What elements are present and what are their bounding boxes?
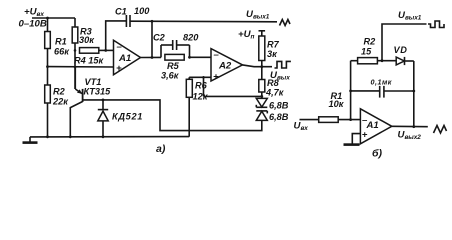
node Uvyh2 label	[398, 129, 422, 141]
wire A2 plus input row	[189, 76, 211, 78]
node R8 bottom junction	[260, 95, 263, 98]
ground right	[344, 143, 360, 146]
diode KD521	[98, 100, 143, 137]
svg-text:3,6к: 3,6к	[161, 70, 180, 80]
node R2 VD junction	[381, 59, 384, 62]
wire ground rail	[30, 136, 189, 138]
svg-text:3к: 3к	[267, 49, 278, 59]
capacitor C1	[115, 6, 150, 27]
svg-text:22к: 22к	[52, 97, 69, 107]
node output junction	[412, 125, 415, 128]
svg-text:+: +	[213, 72, 219, 83]
resistor R6	[188, 77, 190, 79]
zener VD2 6.8V	[256, 111, 288, 122]
wire A1 output	[392, 125, 428, 127]
wire input top	[32, 17, 75, 19]
wire A1 output	[141, 56, 162, 58]
op-amp A1	[114, 40, 141, 75]
resistor R2 right	[358, 37, 378, 64]
op-amp A1 right	[360, 109, 391, 144]
wire left column	[350, 61, 352, 120]
node square glyph right	[428, 21, 444, 28]
svg-text:+: +	[362, 130, 368, 141]
svg-text:R1: R1	[55, 37, 67, 47]
resistor R7	[259, 36, 280, 61]
svg-text:6,8В: 6,8В	[269, 112, 289, 122]
svg-text:R6: R6	[195, 81, 208, 91]
svg-text:10к: 10к	[329, 99, 345, 109]
node R1 output junction	[349, 118, 352, 121]
svg-text:A2: A2	[218, 61, 232, 72]
node divider tap	[74, 66, 77, 69]
node junction R1 top	[46, 17, 49, 20]
svg-text:КД521: КД521	[112, 112, 143, 122]
wire to A2 inverting input	[190, 56, 212, 58]
svg-text:C1: C1	[115, 7, 127, 17]
resistor R1	[45, 32, 71, 57]
node A2 plus input junction	[202, 76, 205, 79]
ground	[23, 137, 38, 143]
resistor R3	[72, 27, 95, 46]
capacitor 0.1mk	[351, 78, 414, 98]
node Uvx input	[294, 121, 309, 133]
svg-text:15: 15	[361, 47, 372, 57]
node C1 column junction	[104, 49, 107, 52]
op-amp A2	[211, 49, 243, 83]
svg-text:б): б)	[372, 148, 383, 160]
svg-text:+: +	[116, 63, 122, 74]
svg-text:A1: A1	[118, 53, 131, 64]
wire parallel block right stub	[189, 45, 191, 57]
svg-text:0–10В: 0–10В	[19, 19, 47, 30]
svg-text:12к: 12к	[193, 92, 209, 102]
node KD521 ground junction	[102, 135, 105, 138]
node capacitor left junction	[349, 90, 352, 93]
wire feedback vertical	[151, 21, 153, 57]
node A2 output junction	[260, 65, 263, 68]
svg-text:30к: 30к	[79, 35, 95, 45]
resistor R5	[161, 54, 184, 80]
svg-text:–: –	[214, 50, 220, 61]
node Uvyh label	[270, 70, 290, 82]
svg-text:R2: R2	[364, 37, 377, 47]
wire zener bottom link	[83, 100, 261, 131]
svg-text:C2: C2	[153, 32, 166, 42]
node R5 right junction	[188, 56, 191, 59]
wire divider row to A1 +	[48, 66, 114, 68]
wire A2 output	[243, 65, 273, 67]
wire hysteresis row	[204, 95, 262, 97]
wire C1 feedback left column	[106, 21, 126, 51]
svg-text:R2: R2	[53, 87, 66, 97]
node VT1 emitter ground junction	[69, 135, 72, 138]
wire R3 column	[74, 18, 76, 27]
svg-text:R4 15к: R4 15к	[74, 56, 105, 66]
node divider junction	[46, 65, 49, 68]
node triangle glyph right	[434, 126, 447, 134]
svg-text:66к: 66к	[54, 47, 70, 57]
wire R4 to A1 inverting input	[99, 49, 114, 51]
svg-text:VD: VD	[394, 45, 408, 55]
svg-text:КТ315: КТ315	[84, 86, 112, 96]
node Uvyh1 label	[246, 9, 270, 21]
wire top output row	[130, 20, 277, 23]
node capacitor right junction	[412, 90, 415, 93]
svg-text:100: 100	[134, 6, 150, 16]
svg-text:0,1мк: 0,1мк	[371, 78, 392, 87]
svg-text:820: 820	[183, 32, 199, 42]
node triangle wave glyph	[280, 20, 291, 26]
node +Uvx input label	[19, 7, 47, 30]
resistor R8	[261, 67, 263, 80]
svg-text:а): а)	[156, 143, 166, 155]
wire R1 stubs	[47, 18, 49, 32]
node diode junction	[102, 99, 105, 102]
wire to Uvyh1 terminal	[382, 24, 427, 61]
wire R2 stubs	[47, 67, 49, 85]
capacitor C2	[153, 32, 199, 50]
node R4 tap	[74, 49, 77, 52]
resistor R2	[45, 85, 70, 107]
svg-text:A1: A1	[366, 120, 379, 131]
zener VD1 6.8V	[256, 98, 288, 110]
node +Up supply label	[238, 29, 255, 41]
svg-text:6,8В: 6,8В	[269, 101, 289, 111]
resistor R4	[74, 48, 105, 66]
diode VD	[394, 45, 408, 65]
transistor VT1 KT315	[70, 67, 111, 137]
wire plus input to ground	[352, 134, 360, 144]
wire right column	[413, 61, 415, 127]
svg-text:4,7к: 4,7к	[265, 87, 285, 97]
node A1 output / feedback junction	[151, 56, 154, 59]
wire R7 supply stub	[261, 31, 263, 36]
node R2 ground junction	[46, 135, 49, 138]
node feedback junction	[151, 20, 154, 23]
node square wave glyph at A2 out	[275, 61, 291, 68]
svg-text:–: –	[117, 41, 123, 52]
wire parallel block left stub	[160, 45, 162, 57]
resistor R1 right	[319, 91, 345, 122]
